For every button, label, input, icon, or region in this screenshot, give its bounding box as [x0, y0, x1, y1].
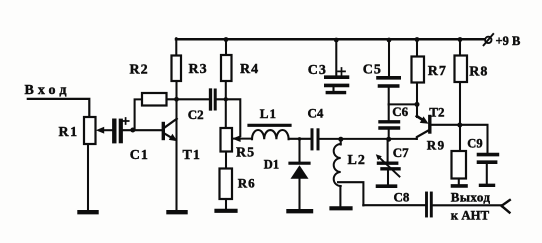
svg-text:R9: R9 [427, 138, 446, 153]
svg-text:C7: C7 [393, 145, 409, 160]
svg-text:T2: T2 [429, 105, 444, 120]
svg-text:L1: L1 [260, 106, 277, 121]
svg-text:Вход: Вход [25, 83, 71, 98]
svg-text:D1: D1 [264, 158, 279, 172]
svg-text:R8: R8 [469, 64, 488, 79]
svg-text:C6: C6 [392, 104, 408, 119]
svg-text:L2: L2 [348, 153, 366, 168]
svg-text:+9 В: +9 В [496, 34, 521, 48]
svg-text:C3: C3 [308, 63, 327, 78]
svg-text:C5: C5 [363, 62, 382, 77]
svg-text:R1: R1 [59, 125, 79, 140]
svg-text:R4: R4 [240, 62, 259, 77]
svg-text:R5: R5 [236, 145, 255, 160]
svg-text:R2: R2 [130, 63, 149, 78]
svg-text:R6: R6 [238, 176, 256, 191]
svg-text:C2: C2 [188, 107, 204, 122]
svg-text:T1: T1 [183, 148, 201, 163]
svg-text:Выход: Выход [451, 190, 491, 205]
svg-text:C8: C8 [394, 190, 410, 205]
svg-text:R3: R3 [189, 62, 208, 77]
svg-text:C4: C4 [308, 106, 324, 121]
svg-text:R7: R7 [428, 64, 447, 79]
svg-text:C9: C9 [467, 137, 482, 151]
svg-text:к АНТ: к АНТ [451, 208, 490, 222]
svg-text:C1: C1 [130, 148, 149, 163]
